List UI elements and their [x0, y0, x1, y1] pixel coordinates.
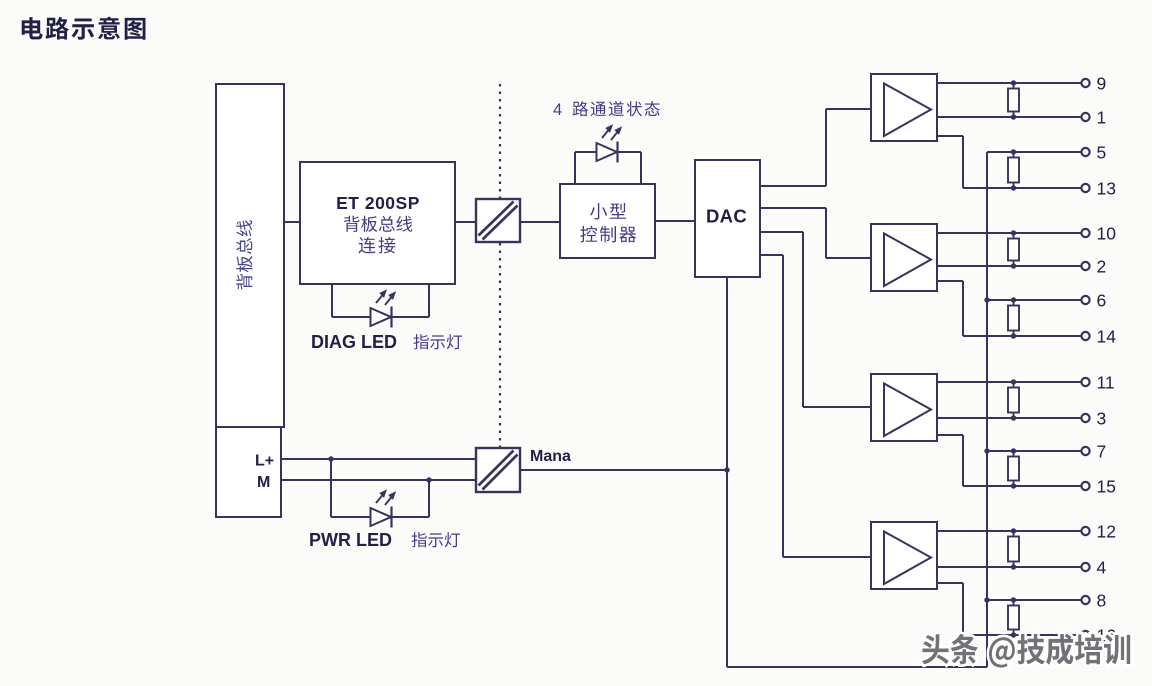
- wire M: [281, 479, 476, 481]
- svg-text:10: 10: [1097, 223, 1117, 243]
- wire A3 aux out (row 15): [937, 435, 1081, 486]
- isolation barrier X2 (power): [476, 448, 520, 492]
- label DIAG LED 指示灯: [311, 332, 462, 352]
- wire A2 out+ (row 10): [937, 232, 1081, 234]
- wire DAC output 4 to amp A4: [760, 255, 871, 557]
- isolation barrier X1 (bus): [476, 199, 520, 242]
- module box U1 ET 200SP backplane connection: [300, 162, 455, 284]
- wire Mana: [520, 469, 727, 471]
- junction dot Mana feed: [724, 467, 729, 472]
- junction dot Mana row 6: [984, 297, 989, 302]
- Mana bus vertical wire: [986, 152, 988, 667]
- svg-text:3: 3: [1097, 408, 1107, 428]
- op-amp A1: [871, 74, 937, 141]
- op-amp A3: [871, 374, 937, 441]
- terminal 14: [1081, 326, 1116, 346]
- LED D1 DIAG: [371, 289, 397, 327]
- wire DAC output 3 to amp A3: [760, 232, 871, 407]
- resistor R1: [1008, 80, 1019, 119]
- junction dot Mana row 8: [984, 597, 989, 602]
- wire A2 aux out (row 14): [937, 281, 1081, 336]
- wire backplane to ET box: [284, 221, 300, 223]
- svg-text:7: 7: [1097, 441, 1107, 461]
- terminal 10: [1081, 223, 1116, 243]
- label 4 路通道状态: [553, 101, 660, 119]
- terminal 3: [1081, 408, 1106, 428]
- terminal 2: [1081, 256, 1106, 276]
- terminal 13: [1081, 178, 1116, 198]
- bottom return wire: [727, 666, 987, 668]
- op-amp A2: [871, 224, 937, 291]
- LED D2 channel status: [597, 124, 623, 162]
- svg-text:M: M: [257, 474, 270, 491]
- svg-text:12: 12: [1097, 521, 1116, 541]
- svg-text:6: 6: [1097, 290, 1107, 310]
- op-amp A4: [871, 522, 937, 589]
- wire A1 out+ (row 9): [937, 82, 1081, 84]
- junction dot M: [426, 477, 431, 482]
- terminal 4: [1081, 557, 1106, 577]
- wire Mana bus row 6: [987, 299, 1081, 301]
- svg-text:ET 200SP: ET 200SP: [336, 193, 420, 213]
- controller box U2 小型控制器: [560, 184, 655, 258]
- svg-text:2: 2: [1097, 256, 1107, 276]
- terminal 1: [1081, 107, 1106, 127]
- wire controller to DAC: [655, 220, 695, 222]
- svg-text:11: 11: [1097, 372, 1115, 392]
- svg-text:Mana: Mana: [530, 448, 571, 465]
- svg-text:8: 8: [1097, 590, 1107, 610]
- wire DAC output 2 to amp A2: [760, 208, 871, 258]
- resistor R3: [1008, 230, 1019, 268]
- power feed box L+/M: [216, 427, 281, 517]
- junction dot Mana row 7: [984, 448, 989, 453]
- wire Mana bus row 7: [987, 450, 1081, 452]
- svg-text:1: 1: [1097, 107, 1107, 127]
- wire DAC output 1 to amp A1: [760, 109, 871, 186]
- terminal 12: [1081, 521, 1116, 541]
- wire A1 out- (row 1): [937, 116, 1081, 118]
- svg-text:4: 4: [1097, 557, 1107, 577]
- wire channel LED loop: [575, 152, 641, 184]
- svg-text:L+: L+: [255, 453, 274, 470]
- isolation boundary dotted line: [499, 84, 501, 448]
- resistor R2: [1008, 149, 1019, 190]
- terminal 16: [1081, 625, 1116, 645]
- svg-text:14: 14: [1097, 326, 1117, 346]
- svg-text:5: 5: [1097, 142, 1107, 162]
- wire A1 aux out (row 13): [937, 136, 1081, 188]
- resistor R6: [1008, 448, 1019, 488]
- wire A3 out- (row 3): [937, 417, 1081, 419]
- terminal 8: [1081, 590, 1106, 610]
- resistor R7: [1008, 528, 1019, 569]
- label L+: [255, 453, 274, 470]
- backplane bus vertical label 背板总线 (rotated): [236, 220, 252, 289]
- label Mana: [530, 448, 571, 465]
- wire Mana bus row 8: [987, 599, 1081, 601]
- svg-text:13: 13: [1097, 178, 1116, 198]
- label M: [257, 474, 270, 491]
- wire L+: [281, 458, 476, 460]
- svg-text:DAC: DAC: [706, 206, 747, 227]
- svg-text:DIAG LED: DIAG LED: [311, 332, 397, 352]
- label PWR LED 指示灯: [309, 530, 460, 550]
- wire A4 out- (row 4): [937, 566, 1081, 568]
- wire isolation barrier to controller: [520, 221, 560, 223]
- wire A3 out+ (row 11): [937, 381, 1081, 383]
- DAC U3: [695, 160, 760, 277]
- terminal 6: [1081, 290, 1106, 310]
- resistor R4: [1008, 297, 1019, 338]
- wire A2 out- (row 2): [937, 265, 1081, 267]
- LED D3 PWR: [371, 489, 397, 527]
- junction dot L+: [328, 456, 333, 461]
- svg-text:9: 9: [1097, 73, 1107, 93]
- title text 电路示意图: [22, 17, 146, 40]
- svg-text:4: 4: [553, 101, 562, 119]
- wire DIAG LED loop: [332, 284, 429, 317]
- wire A4 aux out (row 16): [937, 583, 1081, 635]
- watermark 头条@技成培训: [922, 634, 1130, 668]
- wire Mana bus row 5: [987, 151, 1081, 153]
- backplane bus box (背板总线): [216, 84, 284, 427]
- wire PWR LED loop: [331, 459, 429, 517]
- resistor R8: [1008, 597, 1019, 637]
- wire ET box to isolation barrier: [455, 221, 476, 223]
- wire DAC ground to return: [726, 277, 728, 667]
- terminal 11: [1081, 372, 1114, 392]
- wire A4 out+ (row 12): [937, 530, 1081, 532]
- resistor R5: [1008, 379, 1019, 420]
- svg-text:PWR LED: PWR LED: [309, 530, 392, 550]
- terminal 15: [1081, 476, 1116, 496]
- svg-text:15: 15: [1097, 476, 1116, 496]
- terminal 5: [1081, 142, 1106, 162]
- terminal 7: [1081, 441, 1106, 461]
- terminal 9: [1081, 73, 1106, 93]
